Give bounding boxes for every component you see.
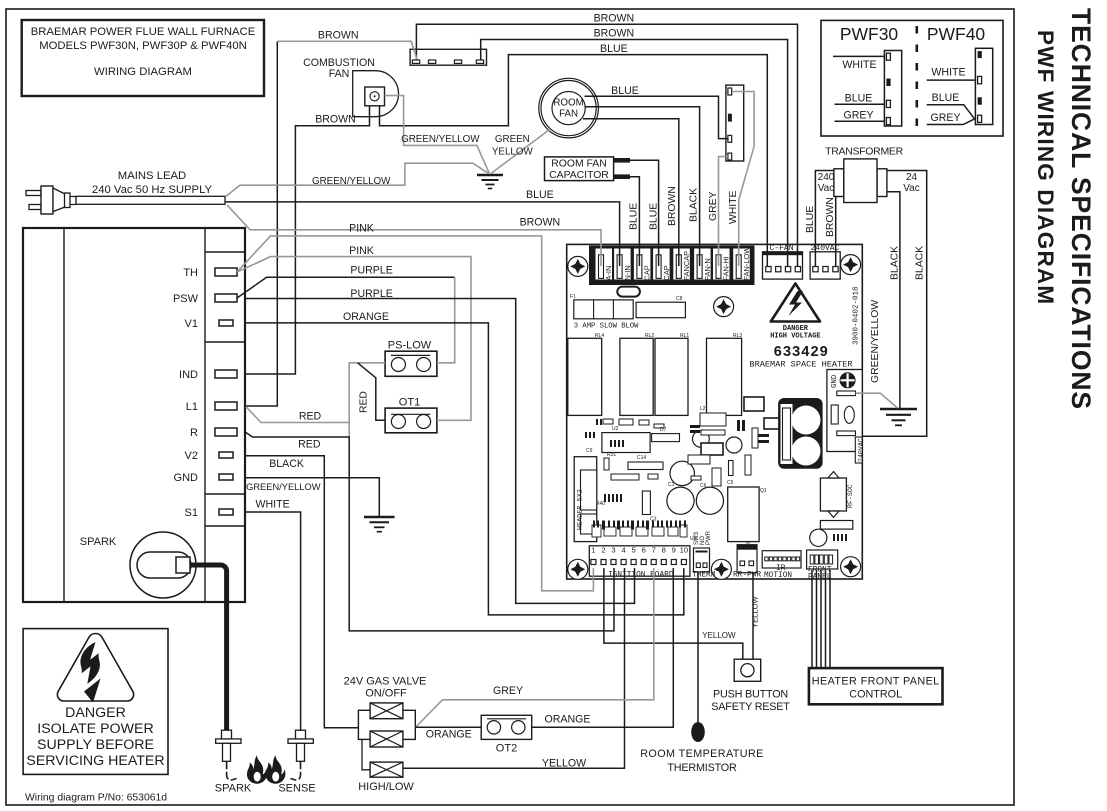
svg-text:3 AMP SLOW BLOW: 3 AMP SLOW BLOW bbox=[574, 323, 639, 331]
danger high voltage triangle bbox=[770, 284, 820, 341]
wire BLACK 24vac right bbox=[862, 171, 926, 437]
heater front panel control box bbox=[809, 668, 943, 704]
svg-text:2: 2 bbox=[601, 546, 605, 555]
svg-text:BLUE: BLUE bbox=[932, 92, 960, 104]
small parts scatter bbox=[603, 413, 758, 486]
svg-text:BLUE: BLUE bbox=[629, 203, 640, 230]
wire green/yellow room fan earth bbox=[491, 130, 550, 174]
svg-text:SERVICING HEATER: SERVICING HEATER bbox=[26, 753, 164, 769]
terminal V1 bbox=[219, 320, 233, 326]
wire PS-LOW left to OT1 left bbox=[358, 363, 386, 421]
svg-text:V2: V2 bbox=[185, 450, 198, 462]
svg-text:ORANGE: ORANGE bbox=[545, 714, 591, 726]
PS-LOW bbox=[385, 340, 437, 377]
wire PURPLE1 PSW to PS-LOW right bbox=[237, 277, 455, 298]
OT1 bbox=[385, 397, 437, 433]
volute bbox=[353, 71, 399, 117]
svg-text:RF-SOC: RF-SOC bbox=[847, 484, 854, 508]
PWF30 wires bbox=[833, 55, 884, 57]
wire BLUE room fan to plug pin3 bbox=[585, 96, 728, 138]
svg-text:6: 6 bbox=[642, 546, 646, 555]
svg-text:RL1: RL1 bbox=[680, 333, 689, 339]
svg-text:THERMISTOR: THERMISTOR bbox=[667, 762, 737, 774]
svg-text:FAN-HI: FAN-HI bbox=[722, 256, 731, 280]
ignition board connector bbox=[589, 546, 690, 580]
top connector strip (8 cells) bbox=[589, 246, 755, 286]
svg-text:1: 1 bbox=[591, 546, 595, 555]
svg-text:SENSE: SENSE bbox=[278, 783, 315, 795]
cable bbox=[76, 196, 225, 204]
svg-text:GND: GND bbox=[174, 472, 199, 484]
svg-text:MOTION: MOTION bbox=[764, 572, 792, 580]
wire BLACK room fan to FAN-N bbox=[585, 107, 700, 266]
svg-text:THERM: THERM bbox=[692, 572, 716, 580]
room temperature thermistor bbox=[640, 722, 764, 774]
24V gas valve bbox=[344, 676, 427, 794]
svg-text:BLUE: BLUE bbox=[845, 93, 873, 105]
wire labels bbox=[246, 13, 925, 511]
lightning bolt bbox=[80, 642, 100, 684]
svg-text:240VAC: 240VAC bbox=[858, 438, 865, 462]
svg-text:SPARK: SPARK bbox=[215, 783, 252, 795]
svg-text:BLACK: BLACK bbox=[914, 246, 925, 280]
svg-text:GREY: GREY bbox=[493, 685, 523, 697]
fan mount box bbox=[365, 87, 385, 106]
svg-text:GREEN/YELLOW: GREEN/YELLOW bbox=[246, 482, 321, 492]
room fan bbox=[539, 78, 599, 138]
svg-text:Q1: Q1 bbox=[760, 488, 767, 494]
svg-text:L1: L1 bbox=[186, 401, 198, 413]
bottom components bbox=[215, 340, 943, 795]
svg-text:C3: C3 bbox=[650, 517, 657, 523]
corner screws bbox=[568, 255, 861, 580]
svg-text:RR-PWR: RR-PWR bbox=[733, 572, 761, 580]
svg-text:BROWN: BROWN bbox=[594, 13, 635, 25]
terminal S1 bbox=[219, 509, 233, 515]
grounds bbox=[364, 175, 917, 532]
wire ign pin2 to push button bbox=[604, 568, 743, 659]
svg-text:7: 7 bbox=[652, 546, 656, 555]
svg-text:RED: RED bbox=[298, 439, 321, 451]
terminal IND bbox=[215, 370, 237, 378]
svg-text:Vac: Vac bbox=[818, 183, 835, 194]
svg-text:SPARK: SPARK bbox=[80, 536, 117, 548]
left coil bbox=[834, 169, 844, 197]
core bbox=[844, 159, 877, 203]
svg-text:FAN-LOW: FAN-LOW bbox=[742, 247, 751, 281]
RR-PWR connector bbox=[733, 545, 761, 580]
svg-text:ORANGE: ORANGE bbox=[343, 311, 389, 323]
svg-text:BROWN: BROWN bbox=[520, 216, 561, 228]
OT2 bbox=[481, 715, 532, 754]
svg-text:BROWN: BROWN bbox=[667, 186, 678, 226]
vertical page titles bbox=[1033, 8, 1096, 410]
svg-text:GREEN/YELLOW: GREEN/YELLOW bbox=[401, 134, 480, 145]
svg-text:CONTROL: CONTROL bbox=[849, 689, 902, 701]
svg-text:DANGER: DANGER bbox=[65, 705, 126, 721]
svg-text:CAPACITOR: CAPACITOR bbox=[549, 170, 609, 181]
mid right big rect bbox=[728, 487, 759, 542]
svg-text:RED: RED bbox=[299, 411, 322, 423]
svg-text:C8: C8 bbox=[676, 296, 683, 302]
plug body bbox=[41, 186, 53, 214]
svg-text:TH: TH bbox=[183, 267, 198, 279]
svg-text:GREEN: GREEN bbox=[495, 134, 530, 145]
terminal column dividers bbox=[205, 251, 245, 253]
svg-text:240: 240 bbox=[818, 172, 835, 183]
GND area right bbox=[827, 370, 865, 464]
svg-text:MODELS PWF30N, PWF30P & PWF40N: MODELS PWF30N, PWF30P & PWF40N bbox=[39, 40, 247, 52]
wire RR-PWR to push button bbox=[752, 572, 754, 659]
svg-text:RED: RED bbox=[359, 391, 370, 413]
ground (GND terminal) bbox=[364, 517, 395, 532]
terminal PSW bbox=[215, 294, 237, 302]
svg-text:GREY: GREY bbox=[708, 191, 719, 221]
plug ring bbox=[65, 193, 71, 208]
svg-text:A-IN: A-IN bbox=[604, 266, 613, 281]
warning triangle bbox=[57, 633, 133, 701]
svg-text:OT2: OT2 bbox=[496, 743, 517, 755]
wire ign pin4 YELLOW to valve high/low bbox=[404, 568, 625, 768]
svg-text:C6: C6 bbox=[700, 483, 707, 489]
svg-text:BLUE: BLUE bbox=[648, 203, 659, 230]
wires FRONT PANEL to heater control bbox=[812, 570, 830, 668]
svg-text:RL4: RL4 bbox=[595, 333, 604, 339]
svg-text:PURPLE: PURPLE bbox=[350, 265, 392, 277]
wire green/yellow mains earth bbox=[226, 163, 488, 196]
wire BLACK 24vac to ground bbox=[887, 192, 900, 408]
mains plug and lead bbox=[26, 170, 225, 214]
wire GREY plug pin4 to FAN-HI bbox=[719, 157, 728, 266]
svg-text:GREY: GREY bbox=[930, 112, 960, 124]
spark thick cable bbox=[190, 565, 227, 730]
svg-text:4: 4 bbox=[621, 546, 625, 555]
danger box bbox=[23, 629, 168, 775]
svg-text:PSW: PSW bbox=[173, 293, 199, 305]
toroid black region bbox=[778, 398, 823, 469]
svg-text:C1: C1 bbox=[668, 482, 675, 488]
wire BROWN room fan to FANCAP bbox=[583, 119, 679, 266]
PWF30 connector bbox=[884, 51, 901, 127]
svg-text:PWR: PWR bbox=[706, 530, 712, 545]
svg-text:9: 9 bbox=[672, 546, 676, 555]
svg-text:FANCAP: FANCAP bbox=[682, 251, 691, 281]
svg-text:PWF30: PWF30 bbox=[840, 24, 899, 44]
PCB bbox=[567, 244, 863, 579]
svg-text:WHITE: WHITE bbox=[256, 499, 290, 511]
svg-text:FAN-N: FAN-N bbox=[703, 258, 712, 280]
tiny silkscreen labels bbox=[570, 294, 767, 547]
dense silkscreen texture rows bbox=[585, 419, 624, 502]
svg-text:SAFETY RESET: SAFETY RESET bbox=[711, 701, 790, 713]
svg-text:C14: C14 bbox=[637, 455, 646, 461]
svg-text:R: R bbox=[190, 427, 198, 439]
svg-text:24V GAS VALVE: 24V GAS VALVE bbox=[344, 676, 427, 688]
svg-text:PINK: PINK bbox=[349, 223, 374, 235]
svg-text:BLUE: BLUE bbox=[526, 189, 554, 201]
240VAC connector bbox=[810, 244, 840, 279]
svg-text:BLUE: BLUE bbox=[805, 206, 816, 233]
wire OT2 left ORANGE to valve bbox=[415, 726, 481, 728]
wire cap top to CAP2 bbox=[630, 160, 659, 266]
wire PINK2 TH to OT1 right bbox=[237, 257, 471, 421]
svg-text:OT1: OT1 bbox=[399, 397, 420, 409]
wire ign pin9 ORANGE to OT2 right bbox=[532, 568, 674, 727]
svg-text:U2: U2 bbox=[612, 426, 619, 432]
svg-text:BRAEMAR POWER FLUE WALL FURNAC: BRAEMAR POWER FLUE WALL FURNACE bbox=[31, 26, 256, 38]
svg-text:BLACK: BLACK bbox=[269, 458, 304, 470]
svg-text:BROWN: BROWN bbox=[825, 197, 836, 237]
svg-text:BLACK: BLACK bbox=[689, 188, 700, 222]
wire green/yellow comb fan earth bbox=[385, 96, 490, 174]
svg-text:Wiring diagram P/No: 653061d: Wiring diagram P/No: 653061d bbox=[25, 793, 167, 804]
wire comb fan left to IND bbox=[246, 106, 370, 374]
top 4-pin connector bbox=[410, 49, 486, 65]
svg-text:ISOLATE POWER: ISOLATE POWER bbox=[37, 721, 153, 737]
svg-text:3: 3 bbox=[611, 546, 615, 555]
svg-text:BRAEMAR SPACE HEATER: BRAEMAR SPACE HEATER bbox=[749, 360, 852, 370]
terminal R bbox=[215, 428, 237, 436]
svg-text:ROOM TEMPERATURE: ROOM TEMPERATURE bbox=[640, 748, 764, 760]
svg-text:IGNITION BOARD: IGNITION BOARD bbox=[608, 572, 674, 580]
svg-text:BLUE: BLUE bbox=[600, 43, 628, 55]
svg-text:F1: F1 bbox=[570, 294, 576, 300]
svg-text:WHITE: WHITE bbox=[842, 59, 876, 71]
svg-text:CAP: CAP bbox=[662, 265, 671, 280]
svg-text:10: 10 bbox=[680, 546, 688, 555]
wire S1 WHITE to sense electrode bbox=[246, 512, 301, 731]
wire BROWN top1: 4pin pin1 to C-FAN pin4 bbox=[416, 24, 797, 266]
sense electrode bbox=[278, 730, 315, 794]
svg-text:CAP: CAP bbox=[643, 265, 652, 280]
svg-text:V1: V1 bbox=[185, 318, 198, 330]
wire ign pin7 GREY to valve on/off bbox=[416, 568, 654, 727]
combustion fan bbox=[303, 57, 398, 117]
extra right-middle details bbox=[744, 397, 790, 429]
wire R RED to ign pin3 bbox=[246, 433, 614, 631]
svg-text:WHITE: WHITE bbox=[728, 190, 739, 224]
svg-text:HIGH VOLTAGE: HIGH VOLTAGE bbox=[770, 333, 820, 341]
FRONT PANEL connector bbox=[807, 550, 838, 582]
terminal TH bbox=[215, 268, 237, 276]
svg-text:ORANGE: ORANGE bbox=[426, 729, 472, 741]
svg-text:RL2: RL2 bbox=[645, 333, 654, 339]
RF-SOC bbox=[820, 472, 854, 518]
svg-text:PWF40: PWF40 bbox=[927, 24, 986, 44]
relays bbox=[568, 338, 742, 415]
svg-text:PWF WIRING DIAGRAM: PWF WIRING DIAGRAM bbox=[1033, 30, 1058, 305]
terminal V2 bbox=[219, 452, 233, 458]
svg-text:GREEN/YELLOW: GREEN/YELLOW bbox=[312, 176, 391, 187]
svg-text:BROWN: BROWN bbox=[315, 113, 356, 125]
wire BROWN top2: 4pin pin4 to C-FAN pin3 bbox=[481, 40, 788, 267]
wire BLUE top: comb fan right to C-FAN pin1 bbox=[380, 55, 768, 266]
push button safety reset bbox=[711, 659, 790, 713]
svg-text:BLACK: BLACK bbox=[889, 246, 900, 280]
plug cone bbox=[53, 188, 65, 212]
svg-text:ROOM FAN: ROOM FAN bbox=[551, 159, 606, 170]
svg-text:YELLOW: YELLOW bbox=[492, 146, 534, 157]
svg-text:GREY: GREY bbox=[843, 110, 873, 122]
svg-text:RL3: RL3 bbox=[733, 333, 742, 339]
fuse block bbox=[574, 300, 686, 331]
wire L1 RED to PS-LOW left bbox=[246, 363, 385, 437]
wire BROWN grey: L1 to 4pin pin1 bbox=[246, 41, 277, 406]
svg-text:PURPLE: PURPLE bbox=[350, 288, 392, 300]
PWF40 connector bbox=[975, 48, 992, 124]
svg-text:HIGH/LOW: HIGH/LOW bbox=[358, 781, 414, 793]
svg-text:IND: IND bbox=[179, 369, 198, 381]
svg-text:ROOM: ROOM bbox=[553, 98, 583, 109]
svg-text:BROWN: BROWN bbox=[318, 30, 359, 42]
room fan capacitor bbox=[545, 157, 631, 181]
svg-text:N-IN: N-IN bbox=[623, 265, 632, 280]
C-FAN connector bbox=[763, 244, 803, 279]
ground (PCB 24V) bbox=[880, 409, 917, 425]
svg-text:5: 5 bbox=[631, 546, 635, 555]
svg-text:YELLOW: YELLOW bbox=[751, 596, 760, 628]
svg-text:HEADER 5X2: HEADER 5X2 bbox=[577, 489, 585, 530]
PWF40 wires bbox=[927, 79, 976, 81]
pill bbox=[617, 287, 640, 297]
svg-text:R40: R40 bbox=[596, 501, 605, 507]
svg-text:S1: S1 bbox=[185, 507, 198, 519]
ground (fan/mains earth) bbox=[477, 175, 503, 189]
svg-text:FAN: FAN bbox=[329, 68, 350, 80]
terminal GND bbox=[219, 474, 233, 480]
wire WHITE plug pin1 to FAN-LOW bbox=[732, 92, 754, 267]
white 4-pin plug connector bbox=[726, 85, 744, 161]
svg-text:D7: D7 bbox=[660, 427, 667, 433]
wire BLUE mains to N-IN bbox=[226, 202, 620, 266]
svg-text:C5: C5 bbox=[727, 480, 734, 486]
svg-text:8: 8 bbox=[662, 546, 666, 555]
PWF30/40 box bbox=[821, 20, 1003, 136]
svg-text:3900-0402-018: 3900-0402-018 bbox=[853, 286, 861, 345]
bottom component row above ignition board bbox=[592, 525, 687, 537]
svg-text:TECHNICAL SPECIFICATIONS: TECHNICAL SPECIFICATIONS bbox=[1066, 8, 1096, 410]
spark electrode bbox=[215, 730, 252, 794]
header 5x2 bbox=[574, 457, 597, 542]
svg-text:PS-LOW: PS-LOW bbox=[388, 340, 432, 352]
plug prongs bbox=[26, 191, 41, 196]
wire BROWN mains to A-IN bbox=[227, 205, 601, 266]
terminal L1 bbox=[215, 402, 237, 410]
svg-text:GREEN/YELLOW: GREEN/YELLOW bbox=[870, 300, 881, 383]
wire THERM to thermistor bbox=[697, 572, 699, 723]
svg-text:Vac: Vac bbox=[903, 183, 920, 194]
svg-text:PINK: PINK bbox=[349, 245, 374, 257]
wire PINK1 TH to ign pin1 bbox=[237, 236, 593, 591]
big IC bbox=[602, 433, 650, 453]
wire GND green/yellow to ground bbox=[246, 478, 379, 516]
transformer bbox=[818, 146, 920, 203]
svg-text:ON/OFF: ON/OFF bbox=[365, 688, 407, 700]
svg-text:C9: C9 bbox=[586, 448, 593, 454]
right coil bbox=[877, 169, 887, 197]
svg-text:WIRING DIAGRAM: WIRING DIAGRAM bbox=[94, 66, 192, 78]
wire PURPLE2 PSW to ign pin5 bbox=[246, 299, 635, 604]
wire green/yellow PCB gnd bbox=[856, 393, 898, 408]
title box bbox=[22, 20, 264, 96]
THERM connector bbox=[692, 530, 716, 579]
wire BROWN transformer primary bbox=[835, 196, 837, 266]
svg-text:PUSH BUTTON: PUSH BUTTON bbox=[713, 689, 788, 701]
svg-text:240 Vac 50 Hz SUPPLY: 240 Vac 50 Hz SUPPLY bbox=[92, 184, 213, 196]
svg-text:YELLOW: YELLOW bbox=[702, 631, 736, 640]
svg-text:24: 24 bbox=[906, 172, 918, 183]
wire V2 BLACK to gas valve bbox=[246, 456, 359, 728]
svg-text:BLUE: BLUE bbox=[611, 85, 639, 97]
wire BLUE transformer primary bbox=[815, 171, 834, 267]
IR MOTION connector bbox=[762, 551, 801, 580]
svg-text:GND: GND bbox=[831, 374, 839, 388]
big capacitors bbox=[667, 431, 742, 515]
svg-text:MAINS LEAD: MAINS LEAD bbox=[118, 170, 186, 182]
spark plug bbox=[130, 532, 196, 598]
dashed divider bbox=[915, 26, 918, 131]
svg-text:L2: L2 bbox=[700, 406, 706, 412]
wire cap bottom to CAP1 bbox=[630, 177, 639, 266]
svg-text:TRANSFORMER: TRANSFORMER bbox=[825, 146, 904, 158]
flames bbox=[247, 755, 285, 783]
svg-text:BROWN: BROWN bbox=[594, 28, 635, 40]
board outline bbox=[567, 244, 863, 579]
left terminal block bbox=[23, 228, 245, 730]
svg-text:FAN: FAN bbox=[559, 109, 578, 120]
svg-text:WHITE: WHITE bbox=[931, 67, 965, 79]
wire ORANGE V1 to ign pin10 bbox=[246, 323, 684, 615]
svg-text:SUPPLY BEFORE: SUPPLY BEFORE bbox=[37, 737, 154, 753]
svg-text:R31: R31 bbox=[607, 452, 616, 458]
svg-text:HEATER FRONT PANEL: HEATER FRONT PANEL bbox=[812, 676, 940, 688]
